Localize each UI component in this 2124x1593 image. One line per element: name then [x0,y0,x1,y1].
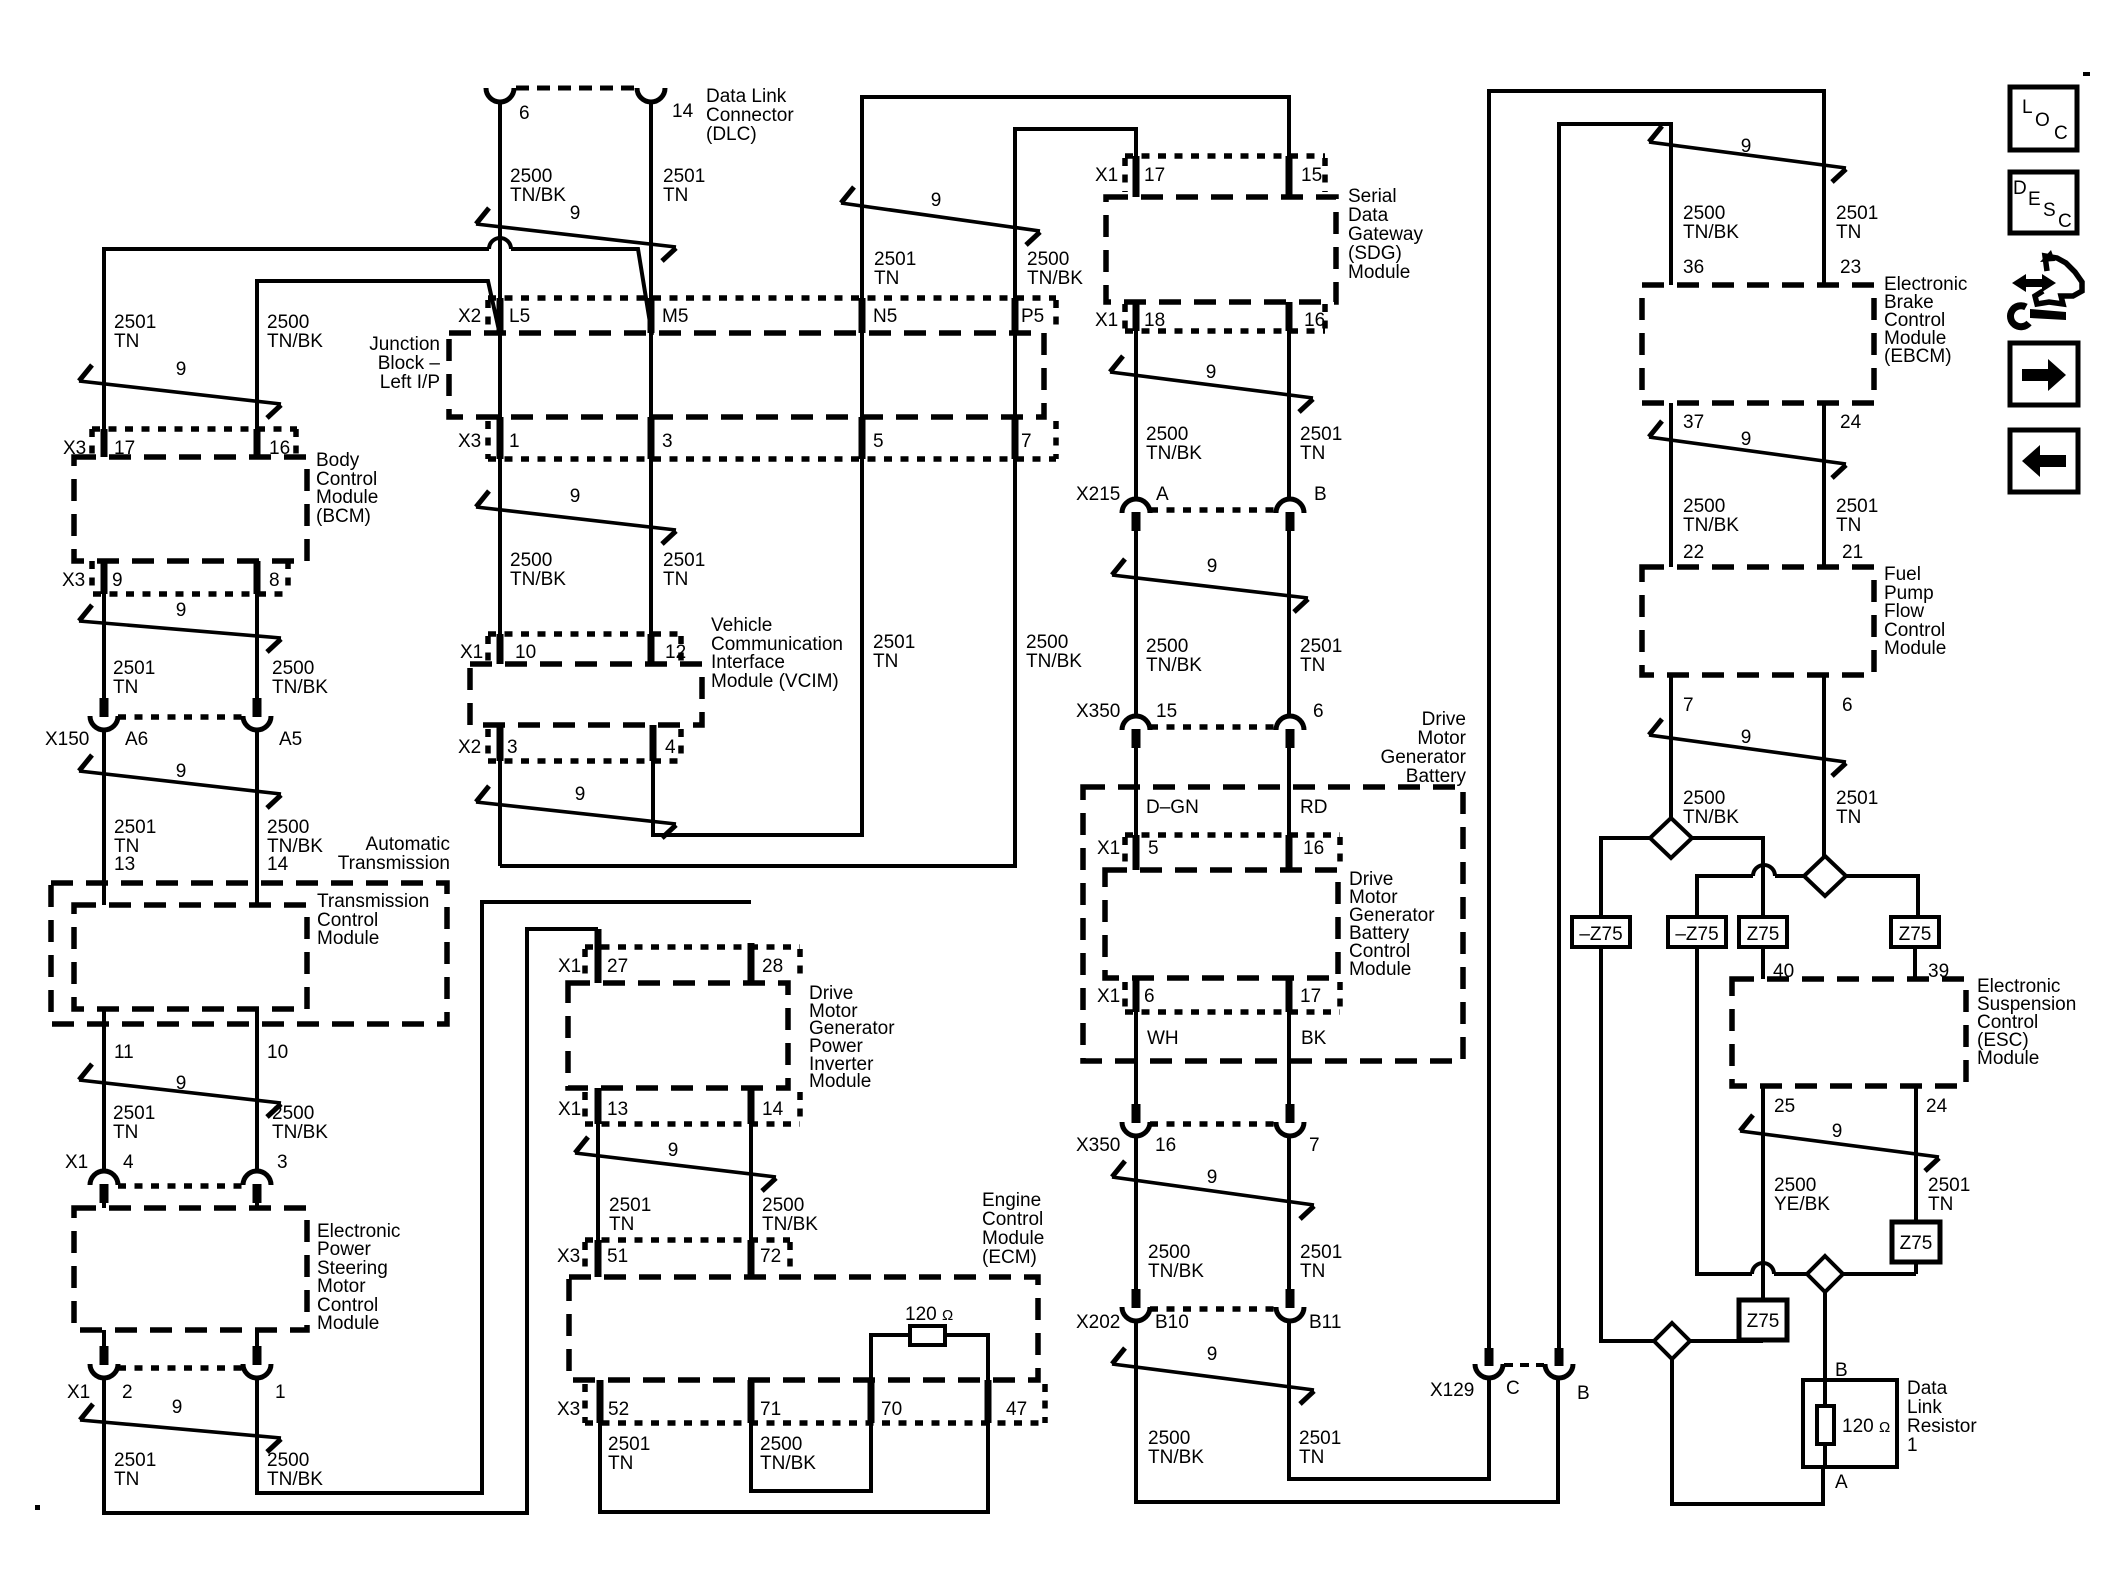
wire 2500 TN/BK B10 bottom loop to X129 B [1136,1320,1558,1502]
wire 2501 TN DLC pin 14 down to VCIM X1-12 [649,101,653,664]
wire 2500 TN/BK EBCM pin 37 to fuel module pin 22 [1669,403,1673,567]
svg-text:X2: X2 [458,737,481,758]
svg-text:9: 9 [1207,1344,1218,1365]
label 2501 TN (EPS X1-4 wire) [113,1103,155,1143]
pin 21 label [1842,542,1863,563]
svg-text:17: 17 [1300,986,1321,1007]
connector band junction X2 pins L5 M5 N5 P5 [458,298,1056,333]
svg-text:X215: X215 [1076,484,1120,505]
svg-text:X202: X202 [1076,1312,1120,1333]
svg-text:14: 14 [267,854,289,875]
svg-text:TN: TN [1928,1194,1953,1215]
svg-text:TN/BK: TN/BK [510,569,566,590]
svg-text:TN: TN [873,651,898,672]
svg-text:14: 14 [762,1099,784,1120]
svg-text:1: 1 [509,431,520,452]
wire BK battery pin 17 to X350 7 [1287,1012,1291,1107]
svg-text:2: 2 [122,1382,133,1403]
module box Engine Control Module (ECM) [569,1190,1044,1380]
wire 2500 TN/BK X350 16 to X202 B10 [1134,1135,1138,1292]
pin 22 label [1683,542,1704,563]
svg-text:Module: Module [317,1313,379,1334]
connector band BCM X3 pins 17 16 [63,429,297,459]
svg-text:X129: X129 [1430,1380,1474,1401]
module box Drive Motor Generator Battery [1083,709,1467,1061]
wire WH battery pin 6 to X350 16 [1134,1012,1138,1107]
wire 2500 TN/BK ECM pin 71 loop to 120 ohm pin 70 [751,1423,871,1491]
svg-text:TN: TN [1836,222,1861,243]
svg-text:Data: Data [1348,205,1389,226]
svg-text:X3: X3 [557,1246,580,1267]
wire 2500 TN/BK X129 B riser to EBCM pin 36 [1559,124,1671,1349]
svg-text:TN: TN [1300,655,1325,676]
svg-text:2500: 2500 [760,1434,802,1455]
svg-text:22: 22 [1683,542,1704,563]
label 2501 TN (VCIM X1-12 wire) [663,550,705,590]
label WH [1147,1028,1179,1049]
svg-text:Automatic: Automatic [366,834,450,855]
svg-text:TN: TN [1836,807,1861,828]
wire 2500 TN/BK BCM pin 8 to X150 A5 [255,594,259,701]
pin 11 label [114,1042,134,1063]
pin A label [1835,1472,1848,1493]
svg-text:TN: TN [1300,443,1325,464]
svg-text:–Z75: –Z75 [1675,924,1718,945]
svg-text:Module (VCIM): Module (VCIM) [711,671,839,692]
svg-text:3: 3 [277,1152,288,1173]
wire diamond 2 left branch with hop to splice -Z75 2 [1697,865,1804,917]
wire stub into EPS box pin 3 [255,1199,259,1208]
svg-text:TN: TN [113,1122,138,1143]
svg-text:9: 9 [172,1397,183,1418]
inline connector X350 pins 15 6 [1076,701,1324,748]
svg-text:120 Ω: 120 Ω [905,1304,953,1325]
wire stub into EPS box pin 4 [102,1199,106,1208]
svg-text:2500: 2500 [1146,636,1188,657]
pin 24 label [1926,1096,1948,1117]
label 2501 TN (X202 B11 bottom wire) [1299,1428,1341,1468]
label 2501 TN (fuel pin 21 wire) [1836,496,1878,536]
svg-text:2501: 2501 [1836,203,1878,224]
inline connector EPS X1 pins 4 3 [65,1152,288,1203]
svg-text:TN/BK: TN/BK [267,331,323,352]
svg-text:2500: 2500 [1774,1175,1816,1196]
connector band PIM X1 pins 13 14 [558,1088,800,1124]
wire 2501 TN X129 C riser to EBCM pin 23 [1489,91,1824,1349]
svg-text:X1: X1 [1095,310,1118,331]
wire 2501 TN EBCM pin 24 to fuel module pin 21 [1822,403,1826,567]
svg-text:Fuel: Fuel [1884,564,1921,585]
svg-text:28: 28 [762,956,783,977]
svg-text:6: 6 [1144,986,1155,1007]
svg-text:TN: TN [608,1453,633,1474]
svg-text:9: 9 [575,784,586,805]
svg-text:Link: Link [1907,1397,1942,1418]
svg-text:TN/BK: TN/BK [272,1122,328,1143]
svg-text:Data: Data [1907,1378,1948,1399]
twisted pair symbol 9 below X350 [1112,1161,1314,1219]
twisted pair symbol 9 below TCM [79,1064,281,1117]
pin 25 label [1774,1096,1795,1117]
svg-text:X3: X3 [557,1399,580,1420]
twisted pair symbol 9 top right of junction block [841,187,1040,245]
svg-text:C: C [2058,211,2072,232]
svg-text:27: 27 [607,956,628,977]
label 2501 TN (splice wire) [1836,788,1878,828]
svg-text:X350: X350 [1076,1135,1120,1156]
twisted pair symbol 9 below SDG [1110,356,1313,412]
svg-text:TN/BK: TN/BK [267,1469,323,1490]
svg-text:120 Ω: 120 Ω [1842,1416,1890,1437]
svg-text:2500: 2500 [510,166,552,187]
svg-text:13: 13 [607,1099,628,1120]
label 2501 TN (EPS X1-2 wire) [114,1450,156,1490]
label 2501 TN (X215 B wire) [1300,424,1342,464]
connector band battery X1 pins 6 17 [1097,978,1340,1012]
pin 23 label [1840,257,1861,278]
svg-text:2500: 2500 [1148,1242,1190,1263]
speck top right [2083,72,2090,76]
svg-text:O: O [2035,110,2050,131]
svg-text:BK: BK [1301,1028,1327,1049]
svg-text:Module: Module [809,1071,871,1092]
svg-text:TN: TN [1300,1261,1325,1282]
svg-text:Module: Module [1884,638,1946,659]
svg-text:Serial: Serial [1348,186,1397,207]
wire 2500 TN/BK X150 to TCM pin 14 [255,729,259,905]
svg-text:Control: Control [982,1209,1043,1230]
label 2500 TN/BK (DLC pin 6 wire) [510,166,566,206]
inline connector X350 pins 16 7 [1076,1104,1320,1156]
svg-text:1: 1 [275,1382,286,1403]
module box Fuel Pump Flow Control Module [1642,564,1946,675]
label 2500 YE/BK (ESC pin 25 wire) [1774,1175,1830,1215]
twisted pair symbol 9 below fuel module [1649,719,1846,776]
icon right arrow box [2010,343,2078,405]
svg-text:3: 3 [662,431,673,452]
wire 2500 TN/BK left column top run to junction L5 [257,281,500,457]
splice diamond lower left [1654,1323,1690,1359]
svg-text:Gateway: Gateway [1348,224,1423,245]
label 2501 TN (ESC pin 24 wire) [1928,1175,1970,1215]
svg-text:X1: X1 [1097,986,1120,1007]
twisted pair symbol 9 above EBCM [1649,126,1846,182]
label 2500 TN/BK (BCM pin 16 wire) [267,312,323,352]
label BK [1301,1028,1327,1049]
svg-text:TN: TN [609,1214,634,1235]
speck bottom left [35,1505,40,1510]
svg-text:5: 5 [873,431,884,452]
svg-text:15: 15 [1301,165,1322,186]
wire diamond 2 right branch to splice Z75 pin 39 [1846,876,1918,917]
wire diamond 4 right branch [1843,1272,1916,1276]
svg-text:9: 9 [1741,429,1752,450]
svg-text:Z75: Z75 [1899,924,1932,945]
wire -Z75 1 drop to lower splice [1601,947,1654,1341]
svg-text:RD: RD [1300,797,1327,818]
wire VCIM X2-4 drop to N5 loop [651,761,655,835]
twisted pair symbol 9 below VCIM [476,784,676,838]
svg-text:TN: TN [114,331,139,352]
svg-text:X2: X2 [458,306,481,327]
pin 13 label [114,854,135,875]
twisted pair symbol 9 below DLC [476,203,676,261]
twisted pair symbol 9 below PIM [575,1137,776,1191]
svg-text:TN/BK: TN/BK [1146,655,1202,676]
connector band battery X1 pins 5 16 [1097,835,1340,870]
svg-text:2500: 2500 [762,1195,804,1216]
svg-text:15: 15 [1156,701,1177,722]
svg-text:TN: TN [1299,1447,1324,1468]
svg-text:2500: 2500 [272,1103,314,1124]
wire 2501 TN X150 to TCM pin 13 [102,729,106,905]
svg-text:X1: X1 [558,1099,581,1120]
wire 2500 TN/BK TCM pin 10 to EPS X1-3 [255,1009,259,1171]
label 2501 TN (ECM X3-51 wire) [609,1195,651,1235]
svg-text:TN/BK: TN/BK [1683,222,1739,243]
wire 2501 TN B11 loop to X129 C [1289,1320,1489,1479]
wire 2501 TN ECM pin 52 bottom loop to pin 47 [600,1423,988,1512]
svg-text:9: 9 [570,203,581,224]
twisted pair symbol 9 above BCM [79,359,281,418]
svg-text:14: 14 [672,101,694,122]
svg-text:4: 4 [123,1152,134,1173]
module box Vehicle Communication Interface Module (VCIM) [470,615,843,725]
splice -Z75 box 2 [1668,917,1726,947]
label 2500 TN/BK (X202 B10 wire) [1148,1242,1204,1282]
svg-text:B10: B10 [1155,1312,1189,1333]
wire -Z75 2 drop to lower splice with hop [1697,947,1807,1274]
wire 2500 TN/BK EPS X1-1 inner loop to PIM pin 28 [257,902,751,1493]
wire Z75 to ESC pin 39 [1913,947,1917,979]
svg-text:B11: B11 [1309,1312,1341,1333]
svg-text:10: 10 [515,642,536,663]
inline connector X150 pins A6 A5 [45,698,302,750]
svg-text:2500: 2500 [1683,788,1725,809]
svg-text:TN/BK: TN/BK [1683,807,1739,828]
svg-text:2501: 2501 [1299,1428,1341,1449]
svg-text:70: 70 [881,1399,902,1420]
twisted pair symbol 9 below X202 [1112,1344,1314,1404]
splice Z75 box 6 [1739,1300,1787,1340]
svg-text:TN/BK: TN/BK [1027,268,1083,289]
svg-text:2501: 2501 [1300,424,1342,445]
svg-text:X1: X1 [65,1152,88,1173]
svg-text:25: 25 [1774,1096,1795,1117]
svg-text:Data Link: Data Link [706,86,787,107]
twisted pair symbol 9 below EBCM [1649,421,1846,478]
svg-text:7: 7 [1309,1135,1320,1156]
inline connector X129 pins C B [1430,1348,1590,1404]
twisted pair symbol 9 below X215 [1112,556,1308,612]
label 2501 TN (DLC pin 14 wire) [663,166,705,206]
svg-text:Module: Module [1348,262,1410,283]
label 2501 TN (EBCM pin 23 wire) [1836,203,1878,243]
resistor element 120 ohm [1817,1380,1890,1467]
connector band junction X3 pins 1 3 5 7 [458,417,1056,459]
svg-text:TN: TN [874,268,899,289]
svg-text:A: A [1835,1472,1848,1493]
inline connector EPS X1 pins 2 1 [67,1330,286,1403]
svg-text:TN/BK: TN/BK [1026,651,1082,672]
svg-text:B: B [1835,1360,1848,1381]
splice diamond 2501 TN [1804,856,1846,896]
svg-text:TN/BK: TN/BK [272,677,328,698]
svg-text:2501: 2501 [1836,788,1878,809]
wire 2500 TN/BK PIM pin 14 to ECM X3-72 [749,1124,753,1277]
svg-text:Engine: Engine [982,1190,1041,1211]
splice Z75 box 5 [1892,1222,1940,1262]
svg-text:2501: 2501 [608,1434,650,1455]
connector band SDG X1 pins 18 16 [1095,302,1325,331]
wire hop over DLC pin6 wire [489,238,511,249]
svg-text:2500: 2500 [1148,1428,1190,1449]
svg-text:TN/BK: TN/BK [1146,443,1202,464]
module box Automatic Transmission [51,834,450,1024]
svg-text:X150: X150 [45,729,89,750]
wire Z75 5 to lower horizontal [1914,1262,1918,1274]
label D-GN [1146,797,1199,818]
svg-text:(ECM): (ECM) [982,1247,1037,1268]
wire 2501 TN junction N5/5 riser to SDG pin 15 loop [653,97,1289,835]
wire Z75 6 to lower horizontal [1761,1340,1765,1341]
svg-text:2500: 2500 [1027,249,1069,270]
svg-text:Motor: Motor [317,1276,366,1297]
svg-text:2501: 2501 [663,166,705,187]
connector Data Link Connector DLC pins 6 14 [486,86,794,145]
svg-text:TN: TN [663,185,688,206]
svg-text:7: 7 [1683,695,1694,716]
svg-text:1: 1 [1907,1435,1918,1456]
pin 6 label [1842,695,1853,716]
svg-text:Z75: Z75 [1747,1311,1780,1332]
svg-text:N5: N5 [873,306,897,327]
svg-text:A5: A5 [279,729,302,750]
svg-text:L5: L5 [509,306,530,327]
wire 2501 TN ESC pin 24 to Z75 [1914,1086,1918,1222]
svg-text:Transmission: Transmission [338,853,450,874]
svg-text:(BCM): (BCM) [316,506,371,527]
label 2501 TN (ECM pin 52 wire) [608,1434,650,1474]
svg-text:23: 23 [1840,257,1861,278]
svg-text:9: 9 [1832,1121,1843,1142]
pin 24 label [1840,412,1862,433]
svg-text:D: D [2013,178,2027,199]
svg-text:37: 37 [1683,412,1704,433]
module box Electronic Suspension Control (ESC) Module [1732,976,2076,1086]
svg-text:Generator: Generator [1380,747,1466,768]
svg-text:Connector: Connector [706,105,794,126]
pin 14 label [267,854,289,875]
icon DESC box [2010,172,2077,233]
connector band ECM X3 pins 52 71 70 47 [557,1380,1045,1423]
svg-text:9: 9 [1206,362,1217,383]
svg-text:Drive: Drive [1422,709,1466,730]
pin 36 label [1683,257,1704,278]
wire 2501 TN BCM pin 9 to X150 A6 [102,594,106,701]
wire 2500 TN/BK fuel pin 7 to splice diamond [1669,675,1673,818]
svg-text:E: E [2028,189,2041,210]
svg-text:Battery: Battery [1406,766,1467,787]
label 2501 TN (junction N5 wire) [874,249,916,289]
label 2501 TN (X202 B11 wire) [1300,1242,1342,1282]
connector band VCIM X2 pins 3 4 [458,725,681,761]
label RD [1300,797,1327,818]
svg-text:11: 11 [114,1042,134,1063]
label 2500 TN/BK (EBCM pin 36 wire) [1683,203,1739,243]
svg-text:2501: 2501 [114,312,156,333]
svg-text:2500: 2500 [267,1450,309,1471]
svg-text:21: 21 [1842,542,1863,563]
twisted pair symbol 9 below ESC [1740,1115,1939,1171]
svg-text:Interface: Interface [711,652,785,673]
pin 7 label [1683,695,1694,716]
svg-text:X1: X1 [1097,838,1120,859]
wire 2500 TN/BK junction P5/7 riser to SDG pin 17 loop [500,129,1136,866]
connector band ECM X3 pins 51 72 [557,1240,790,1277]
svg-text:S: S [2043,200,2056,221]
svg-text:2500: 2500 [1026,632,1068,653]
svg-text:6: 6 [1842,695,1853,716]
svg-text:2500: 2500 [1683,496,1725,517]
svg-text:Junction: Junction [369,334,440,355]
pin 40 label [1773,961,1794,982]
svg-text:–Z75: –Z75 [1579,924,1622,945]
wire Z75 to ESC pin 40 [1761,947,1765,979]
label 2501 TN (X350 6 wire) [1300,636,1342,676]
label 2500 TN/BK (TCM pin 14 wire) [267,817,323,857]
pin 37 label [1683,412,1704,433]
label 2500 TN/BK (X202 B10 bottom wire) [1148,1428,1204,1468]
svg-text:X1: X1 [67,1382,90,1403]
icon left arrow box [2010,430,2078,492]
svg-text:A6: A6 [125,729,148,750]
svg-text:6: 6 [1313,701,1324,722]
svg-text:TN/BK: TN/BK [510,185,566,206]
svg-text:TN/BK: TN/BK [1148,1447,1204,1468]
svg-text:TN: TN [114,1469,139,1490]
svg-text:2500: 2500 [267,312,309,333]
svg-text:10: 10 [267,1042,288,1063]
label 2501 TN (BCM pin 17 wire) [114,312,156,352]
wire diamond left branch to splice -Z75 [1601,838,1650,917]
svg-text:X3: X3 [458,431,481,452]
wire RD X350 6 into battery box [1287,744,1291,870]
label 2500 TN/BK (X150 A5 wire) [272,658,328,698]
svg-text:X3: X3 [62,570,85,591]
svg-text:24: 24 [1926,1096,1948,1117]
label 2500 TN/BK (ECM pin 71 wire) [760,1434,816,1474]
svg-text:16: 16 [1304,310,1325,331]
module box Electronic Brake Control Module (EBCM) [1642,274,1967,403]
pin 10 label [267,1042,288,1063]
label 2500 TN/BK (X350 15 wire) [1146,636,1202,676]
svg-text:TN: TN [113,677,138,698]
svg-text:2500: 2500 [267,817,309,838]
label 2500 TN/BK (X215 A wire) [1146,424,1202,464]
twisted pair symbol 9 below junction X3 [476,486,676,544]
svg-text:6: 6 [519,103,530,124]
label 2500 TN/BK (EPS X1-1 wire) [267,1450,323,1490]
label 2501 TN (X150 A6 wire) [113,658,155,698]
svg-text:2501: 2501 [873,632,915,653]
svg-text:A: A [1156,484,1169,505]
svg-text:B: B [1577,1383,1590,1404]
label 2500 TN/BK (junction pin 7 riser) [1026,632,1082,672]
wire 2501 TN EPS X1-2 bottom loop to PIM pin 27 [104,929,598,1513]
label 2501 TN (TCM pin 13 wire) [114,817,156,857]
svg-text:2501: 2501 [1836,496,1878,517]
